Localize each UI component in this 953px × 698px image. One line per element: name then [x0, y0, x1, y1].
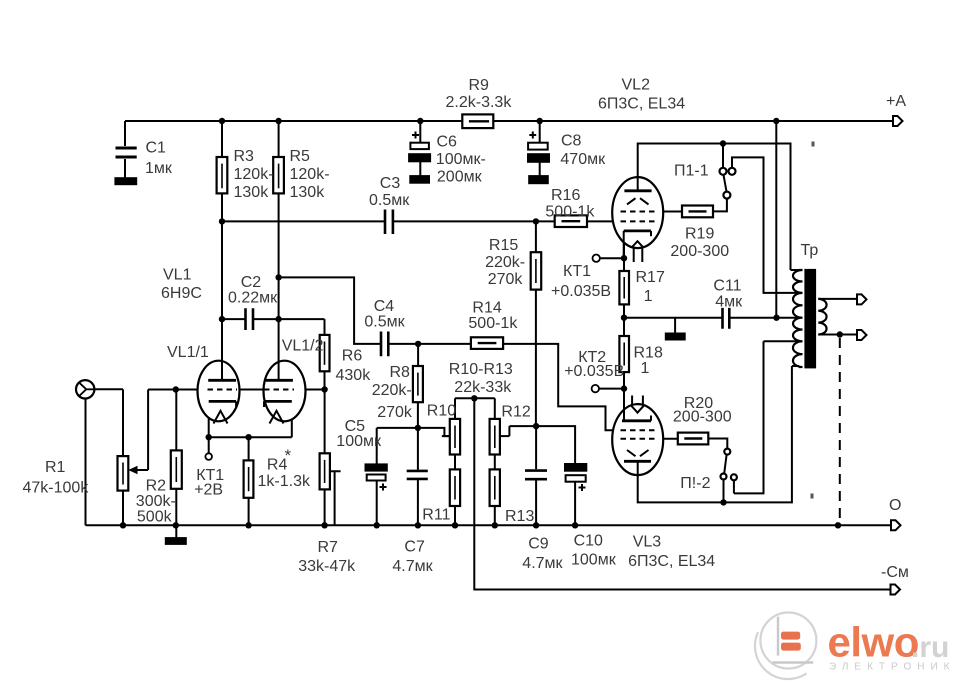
wire R2 column and ground stem	[175, 390, 177, 539]
VL1/2 cathode	[264, 401, 292, 407]
svg-text:270k: 270k	[377, 404, 413, 421]
svg-text:*: *	[285, 446, 292, 465]
VL2 heater	[632, 241, 644, 262]
resistor R17	[619, 271, 629, 304]
svg-text:C1: C1	[146, 140, 167, 157]
junction dots top rail	[219, 118, 780, 124]
wire VL2 screen to R19	[656, 211, 683, 213]
label C8	[560, 133, 606, 169]
wire C9 column	[535, 426, 537, 525]
label C3	[369, 175, 410, 209]
wire lower UL tap to P1-2	[734, 341, 799, 493]
VL1/2 anode plate	[264, 361, 293, 381]
svg-text:C8: C8	[561, 133, 582, 150]
svg-text:-См: -См	[881, 564, 909, 581]
potentiometer R1	[118, 456, 138, 491]
svg-text:C6: C6	[437, 134, 458, 151]
wire +A drop to transformer center tap	[776, 121, 799, 318]
label Tr	[801, 242, 819, 259]
svg-text:430k: 430k	[336, 367, 372, 384]
label R20	[673, 395, 732, 426]
svg-text:R18: R18	[634, 345, 663, 362]
svg-text:C9: C9	[528, 536, 549, 553]
VL2 screen grid	[621, 211, 656, 213]
svg-text:500-1k: 500-1k	[468, 315, 518, 332]
svg-text:220k-: 220k-	[485, 254, 525, 271]
resistor R6	[320, 335, 330, 371]
wire C11 row	[624, 318, 777, 334]
svg-text:elwo: elwo	[828, 619, 919, 666]
svg-text:C10: C10	[574, 533, 603, 550]
wire second rail (VL1/1 anode to C3 to R16)	[222, 220, 621, 222]
wire R1 wiper riser	[134, 390, 148, 471]
svg-text:0.22мк: 0.22мк	[228, 290, 278, 307]
label R9	[446, 77, 513, 111]
terminal -Cm	[891, 585, 901, 595]
svg-text:470мк: 470мк	[560, 151, 606, 168]
junction dots VL2 cathode chain	[621, 255, 627, 392]
wire R6 bottom / R7 top column	[324, 371, 326, 525]
svg-text:R3: R3	[234, 148, 255, 165]
wire R15 column	[535, 221, 537, 426]
stray mark bottom	[811, 494, 814, 499]
wire VL1 cathode bus	[209, 403, 292, 453]
svg-text:VL1/1: VL1/1	[167, 344, 209, 361]
capacitor C6 electrolytic	[409, 121, 430, 183]
junction dots C2 row	[219, 316, 282, 322]
wire VL3 screen to R20	[656, 438, 678, 440]
label R13	[505, 508, 534, 525]
wire R7 wiper down	[330, 471, 341, 525]
svg-text:1: 1	[641, 360, 650, 377]
capacitor C11	[723, 308, 730, 329]
wire P1-2 top stem to R20	[708, 439, 727, 449]
wire feedback row left (C5 R8 R10)	[377, 428, 450, 436]
svg-text:Тр: Тр	[801, 242, 819, 259]
svg-text:200-300: 200-300	[670, 243, 729, 260]
test point KT1 VL2 circle	[593, 255, 600, 262]
label VL3	[628, 534, 715, 571]
resistor R2	[171, 450, 182, 488]
svg-text:R9: R9	[469, 77, 490, 94]
wire KT2 test point row	[599, 388, 624, 390]
junction dots grid bus	[173, 386, 328, 392]
resistor R7	[320, 453, 330, 489]
wire feedback row right to C10	[536, 426, 575, 525]
svg-text:R2: R2	[146, 478, 167, 495]
wire minus Cm line	[474, 398, 890, 589]
label +A	[886, 93, 906, 110]
wire P1-1 right stem to UL tap	[732, 157, 799, 293]
svg-text:П!-2: П!-2	[680, 475, 710, 492]
svg-text:C3: C3	[380, 175, 401, 192]
terminal secondary bottom	[857, 330, 867, 340]
svg-text:VL1: VL1	[163, 267, 192, 284]
label C2	[228, 274, 278, 307]
stray mark top	[812, 142, 815, 147]
label R10	[427, 403, 456, 420]
svg-text:R6: R6	[342, 348, 363, 365]
svg-text:1: 1	[644, 288, 653, 305]
label R17	[636, 269, 665, 305]
wire C4 right to R14 node	[388, 343, 418, 345]
svg-text:6Н9С: 6Н9С	[161, 285, 202, 302]
junction dots cathode bus	[206, 434, 252, 440]
svg-text:200мк: 200мк	[437, 169, 483, 186]
svg-text:П1-1: П1-1	[674, 163, 709, 180]
wire P1-2 bottom-left stem	[723, 480, 725, 503]
wire C7 column	[417, 428, 419, 525]
terminal O	[891, 520, 901, 530]
svg-text:300k-: 300k-	[136, 493, 176, 510]
svg-text:500-1k: 500-1k	[545, 204, 595, 221]
wire dashed secondary to O rail	[839, 338, 841, 522]
svg-text:4.7мк: 4.7мк	[522, 555, 563, 572]
svg-text:.ru: .ru	[911, 631, 949, 664]
wire R14 row and step to VL3 grid	[418, 344, 620, 430]
svg-text:6П3С, EL34: 6П3С, EL34	[598, 96, 685, 113]
terminal +A	[893, 116, 903, 126]
svg-text:R8: R8	[390, 364, 411, 381]
label -Cm	[881, 564, 909, 581]
label R12	[501, 404, 530, 421]
svg-text:6П3С, EL34: 6П3С, EL34	[628, 553, 715, 570]
switch P1-2	[721, 449, 737, 481]
svg-text:R15: R15	[489, 237, 518, 254]
wire input jack sleeve	[85, 399, 87, 526]
input jack X1	[76, 380, 94, 398]
svg-text:КТ1: КТ1	[563, 263, 591, 280]
label R1	[23, 459, 90, 497]
svg-text:R13: R13	[505, 508, 534, 525]
ground at C11	[666, 334, 685, 340]
wire VL2 anode to transformer top	[638, 144, 799, 271]
VL1/1 grid dashes	[208, 389, 238, 391]
label R11	[422, 507, 450, 524]
VL1/1 anode plate	[208, 361, 236, 381]
label O	[889, 497, 901, 514]
svg-text:C7: C7	[404, 539, 425, 556]
capacitor C3	[385, 210, 393, 235]
label R4	[258, 446, 311, 490]
svg-text:C4: C4	[374, 298, 395, 315]
svg-text:+0.035В: +0.035В	[564, 363, 624, 380]
VL3 cathode	[622, 389, 651, 421]
wire R5 column / VL1-2 anode lead	[278, 121, 280, 380]
capacitor C7	[407, 471, 428, 479]
svg-text:1мк: 1мк	[145, 160, 173, 177]
VL3 heater	[631, 396, 644, 413]
transformer Tr core	[806, 270, 816, 367]
label R5	[290, 148, 330, 201]
svg-text:100мк-: 100мк-	[436, 151, 486, 168]
svg-text:VL1/2: VL1/2	[282, 338, 324, 355]
svg-text:33k-47k: 33k-47k	[298, 558, 356, 575]
svg-text:О: О	[889, 497, 901, 514]
svg-text:ЭЛЕКТРОНИК: ЭЛЕКТРОНИК	[829, 661, 953, 672]
resistor R8	[413, 366, 423, 402]
wire P1-1 bottom stem to R19	[713, 199, 727, 212]
svg-text:120k-: 120k-	[290, 166, 330, 183]
resistor R20	[678, 433, 709, 445]
resistor R13	[490, 469, 500, 506]
svg-text:220k-: 220k-	[372, 382, 412, 399]
VL1/2 heater	[270, 411, 284, 424]
VL3 screen grid	[621, 438, 656, 440]
junction dot secondary	[837, 331, 843, 337]
wire R10 R12 top node	[455, 398, 495, 419]
resistor R12 with tick	[490, 419, 510, 455]
label C6	[436, 134, 486, 186]
VL1/1 cathode	[209, 401, 236, 407]
svg-text:130k: 130k	[234, 184, 270, 201]
svg-text:+2В: +2В	[194, 482, 223, 499]
wire R3 column / VL1-1 anode lead	[221, 121, 223, 380]
VL2 cathode	[624, 231, 651, 258]
label R16	[545, 187, 595, 221]
wire R12 tick to feedback row right	[509, 426, 536, 436]
svg-text:22k-33k: 22k-33k	[454, 379, 512, 396]
label C5	[336, 418, 382, 450]
capacitor C1	[116, 121, 137, 184]
wire R4 column	[248, 437, 250, 525]
junction dots bottom rail	[120, 522, 841, 528]
svg-text:R5: R5	[290, 148, 311, 165]
wire KT1 test point row	[600, 257, 624, 259]
label R15	[485, 237, 525, 288]
wire VL3 anode to transformer bottom	[638, 366, 799, 502]
svg-text:R16: R16	[551, 187, 580, 204]
label R6	[336, 348, 372, 385]
svg-text:+А: +А	[886, 93, 906, 110]
switch P1-1	[720, 168, 736, 199]
capacitor C9	[525, 471, 547, 480]
svg-text:C11: C11	[713, 278, 741, 295]
test point KT2 circle	[592, 385, 599, 392]
junction dot R8 bottom	[415, 425, 421, 431]
svg-text:130k: 130k	[290, 184, 326, 201]
wire grid bus VL1	[148, 389, 325, 391]
label R3	[234, 148, 274, 201]
wire R12-R13 link and R13 bottom	[494, 455, 496, 526]
label C4	[364, 298, 405, 331]
VL1/2 grid dashes	[264, 389, 294, 391]
label R18	[634, 345, 663, 378]
svg-text:R1: R1	[45, 459, 66, 476]
resistor R4	[244, 460, 254, 497]
label KT1 VL2	[551, 263, 611, 300]
logo elwo.ru	[755, 613, 953, 680]
label C10	[571, 533, 617, 569]
svg-text:4мк: 4мк	[715, 294, 743, 311]
label P1-1	[674, 163, 709, 180]
label KT2	[564, 349, 624, 380]
wire jack tip to R1 top	[94, 389, 123, 456]
VL3 beam plates	[627, 450, 649, 456]
svg-text:R14: R14	[472, 300, 501, 317]
resistor R14	[471, 337, 503, 349]
junction dot anode line P1-1	[720, 140, 726, 146]
resistor R15	[531, 252, 542, 289]
svg-text:VL2: VL2	[622, 77, 651, 94]
test point KT1 circle	[205, 453, 212, 460]
label R19	[670, 226, 729, 261]
terminal secondary top	[857, 294, 867, 304]
VL3 control grid	[621, 429, 656, 431]
resistor R18	[619, 336, 629, 372]
pentode VL2 envelope	[612, 177, 663, 248]
svg-text:47k-100k: 47k-100k	[23, 480, 90, 497]
wire P1-1 left stem	[722, 144, 724, 168]
junction dots second rail	[219, 218, 539, 224]
ground under R2	[166, 538, 186, 544]
resistor R9	[462, 114, 493, 128]
junction dot R5 branch	[275, 274, 281, 280]
svg-text:100мк: 100мк	[571, 552, 617, 569]
label VL1	[161, 267, 202, 303]
pentode VL3 envelope	[612, 404, 663, 475]
label C1	[145, 140, 173, 178]
label R14	[468, 300, 518, 333]
wire bottom ground rail	[86, 524, 892, 526]
label R10-R13	[449, 361, 513, 396]
svg-text:0.5мк: 0.5мк	[369, 192, 410, 209]
wire R1 bottom	[122, 491, 124, 526]
junction dot feedback right row	[533, 423, 539, 429]
svg-text:500k: 500k	[137, 509, 173, 526]
svg-text:R19: R19	[685, 226, 714, 243]
resistor R11	[450, 469, 460, 506]
svg-text:4.7мк: 4.7мк	[392, 558, 433, 575]
svg-text:C2: C2	[241, 274, 262, 291]
svg-text:0.5мк: 0.5мк	[364, 314, 405, 331]
label C9	[522, 536, 563, 573]
resistor R16	[555, 215, 587, 227]
junction dot center tap	[773, 315, 779, 321]
wire VL1-2 anode branch to C4	[279, 277, 381, 344]
label VL1/1	[167, 344, 209, 361]
wire VL2 cathode chain R17 R18	[623, 231, 625, 421]
svg-text:R11: R11	[422, 507, 450, 524]
resistor R10 with tick	[442, 419, 460, 455]
triode VL1/2 envelope	[264, 361, 306, 422]
label R8	[372, 364, 413, 421]
label R7	[298, 539, 356, 575]
capacitor C8 electrolytic	[528, 121, 549, 183]
svg-text:1k-1.3k: 1k-1.3k	[258, 473, 311, 490]
svg-text:R7: R7	[318, 539, 339, 556]
label VL1/2	[282, 338, 324, 355]
label KT1	[194, 467, 224, 499]
svg-text:100мк: 100мк	[336, 433, 382, 450]
VL2 control grid	[621, 220, 656, 222]
capacitor C10 electrolytic	[565, 464, 586, 491]
VL2 beam plates	[627, 198, 649, 204]
label VL2	[598, 77, 685, 113]
label P1-2	[680, 475, 710, 492]
resistor R5	[273, 157, 284, 193]
svg-text:270k: 270k	[488, 271, 524, 288]
svg-text:R10: R10	[427, 403, 456, 420]
svg-text:R17: R17	[636, 269, 665, 286]
resistor R3	[217, 157, 228, 193]
label C11	[713, 278, 743, 311]
svg-text:+0.035В: +0.035В	[551, 283, 611, 300]
wire R8 column	[417, 344, 419, 428]
transformer primary winding	[793, 270, 803, 367]
wire secondary bottom terminal	[818, 334, 857, 336]
wire secondary top terminal	[818, 298, 857, 300]
junction dot C4 node	[415, 341, 421, 347]
VL1/1 heater	[214, 411, 228, 424]
label R2	[136, 478, 176, 526]
junction dot R10-R12 top node	[471, 395, 477, 401]
transformer secondary winding	[818, 299, 826, 335]
resistor R19	[682, 206, 713, 218]
VL3 anode	[624, 461, 651, 475]
VL2 anode	[624, 177, 651, 191]
svg-text:R10-R13: R10-R13	[449, 361, 513, 378]
svg-text:120k-: 120k-	[234, 166, 274, 183]
svg-text:2.2k-3.3k: 2.2k-3.3k	[446, 94, 513, 111]
triode VL1/1 envelope	[198, 361, 240, 422]
svg-text:200-300: 200-300	[673, 409, 732, 426]
label C7	[392, 539, 433, 576]
wire top +A rail	[125, 120, 893, 122]
svg-text:R12: R12	[501, 404, 530, 421]
junction dot VL3 anode line	[720, 499, 726, 505]
capacitor C5 electrolytic	[366, 465, 387, 491]
wire C2 row	[222, 319, 325, 335]
wire R10-R11 link and R11 bottom	[454, 455, 456, 526]
capacitor C4	[381, 332, 388, 357]
wire C5 column	[376, 428, 378, 525]
svg-text:VL3: VL3	[633, 534, 662, 551]
capacitor C2	[246, 308, 254, 330]
